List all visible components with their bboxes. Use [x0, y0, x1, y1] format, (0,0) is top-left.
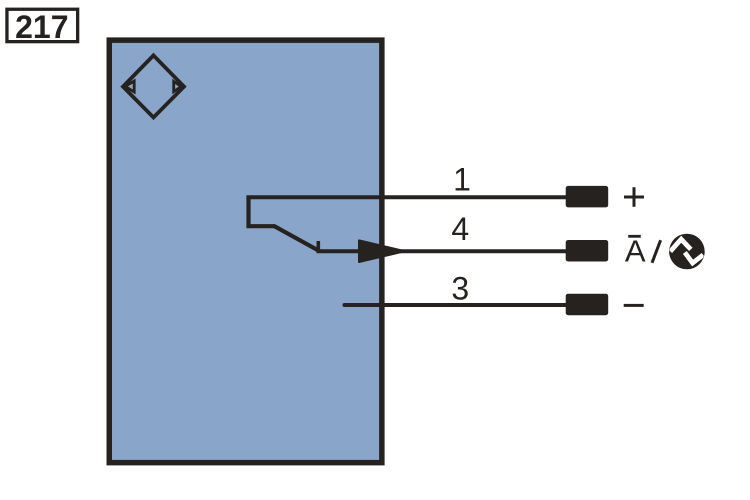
- svg-text:A: A: [625, 233, 646, 268]
- arrowhead on wire 4: [359, 240, 405, 262]
- wire 1 (horizontal line to terminal 1): [246, 195, 566, 199]
- svg-text:4: 4: [451, 211, 469, 247]
- minus sign (wire 3 polarity): [624, 304, 644, 307]
- pin label 3: [451, 271, 469, 307]
- left inner triangle: [125, 81, 134, 92]
- wire 3 (horizontal line to terminal 3): [345, 303, 567, 307]
- slash separator: [652, 240, 661, 263]
- svg-text:217: 217: [15, 9, 68, 45]
- pin label 1: [453, 161, 471, 197]
- sensor symbol: diamond: [123, 55, 184, 117]
- terminal 4: [566, 240, 609, 262]
- fixed contact tick: [316, 241, 320, 251]
- terminal 1: [566, 186, 609, 208]
- pin label 4: [451, 211, 469, 247]
- sensor body (blue block): [109, 40, 382, 463]
- svg-text:3: 3: [451, 271, 469, 307]
- wire 4 (horizontal line to terminal 4): [317, 249, 567, 253]
- figure number box 217: [7, 9, 78, 45]
- terminal 3: [566, 294, 609, 316]
- label A-bar (antivalent output): [625, 233, 646, 268]
- plus sign (wire 1 polarity): [624, 187, 644, 207]
- right inner triangle: [174, 81, 182, 91]
- switch lever (diagonal contact): [274, 226, 320, 251]
- svg-text:1: 1: [453, 161, 471, 197]
- switching output icon (circle with zigzag): [669, 234, 705, 270]
- switch hook from wire 1: [249, 197, 276, 226]
